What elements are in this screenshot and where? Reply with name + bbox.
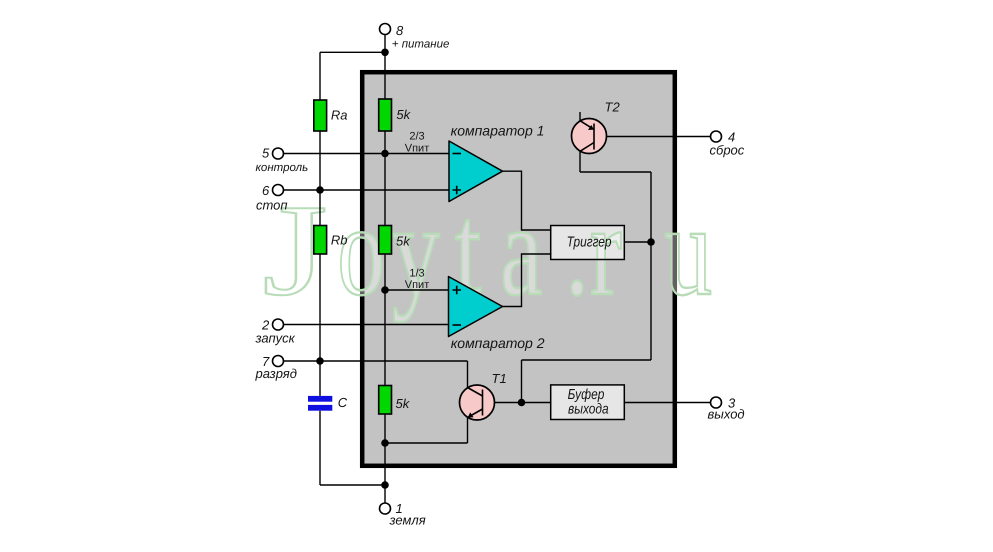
svg-text:5: 5 (262, 146, 270, 161)
svg-text:Vпит: Vпит (405, 279, 429, 291)
svg-text:запуск: запуск (255, 331, 296, 346)
svg-text:Vпит: Vпит (405, 143, 429, 155)
svg-text:T2: T2 (605, 100, 621, 115)
svg-text:5k: 5k (396, 234, 411, 249)
svg-text:5k: 5k (396, 107, 411, 122)
svg-text:T1: T1 (492, 371, 507, 386)
svg-text:6: 6 (262, 183, 270, 198)
svg-text:Триггер: Триггер (567, 235, 612, 251)
svg-text:земля: земля (389, 513, 426, 528)
svg-text:компаратор 2: компаратор 2 (451, 335, 545, 351)
svg-text:сброс: сброс (710, 143, 745, 158)
svg-text:разряд: разряд (255, 366, 297, 381)
svg-text:выход: выход (708, 407, 745, 422)
svg-text:компаратор 1: компаратор 1 (451, 123, 545, 139)
svg-text:5k: 5k (396, 396, 411, 411)
svg-text:выхода: выхода (568, 401, 609, 417)
svg-text:1/3: 1/3 (409, 268, 424, 280)
svg-text:Ra: Ra (331, 108, 348, 123)
svg-text:+ питание: + питание (392, 38, 450, 50)
svg-text:2/3: 2/3 (409, 131, 424, 143)
svg-text:Rb: Rb (331, 233, 348, 248)
svg-text:стоп: стоп (256, 198, 288, 213)
svg-text:C: C (338, 395, 348, 410)
svg-text:контроль: контроль (256, 162, 309, 174)
svg-text:8: 8 (396, 23, 404, 38)
